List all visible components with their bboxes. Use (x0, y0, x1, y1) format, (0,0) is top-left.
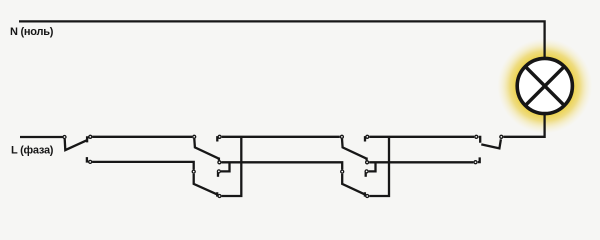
svg-text:N (ноль): N (ноль) (10, 26, 54, 38)
svg-text:L (фаза): L (фаза) (11, 145, 54, 157)
